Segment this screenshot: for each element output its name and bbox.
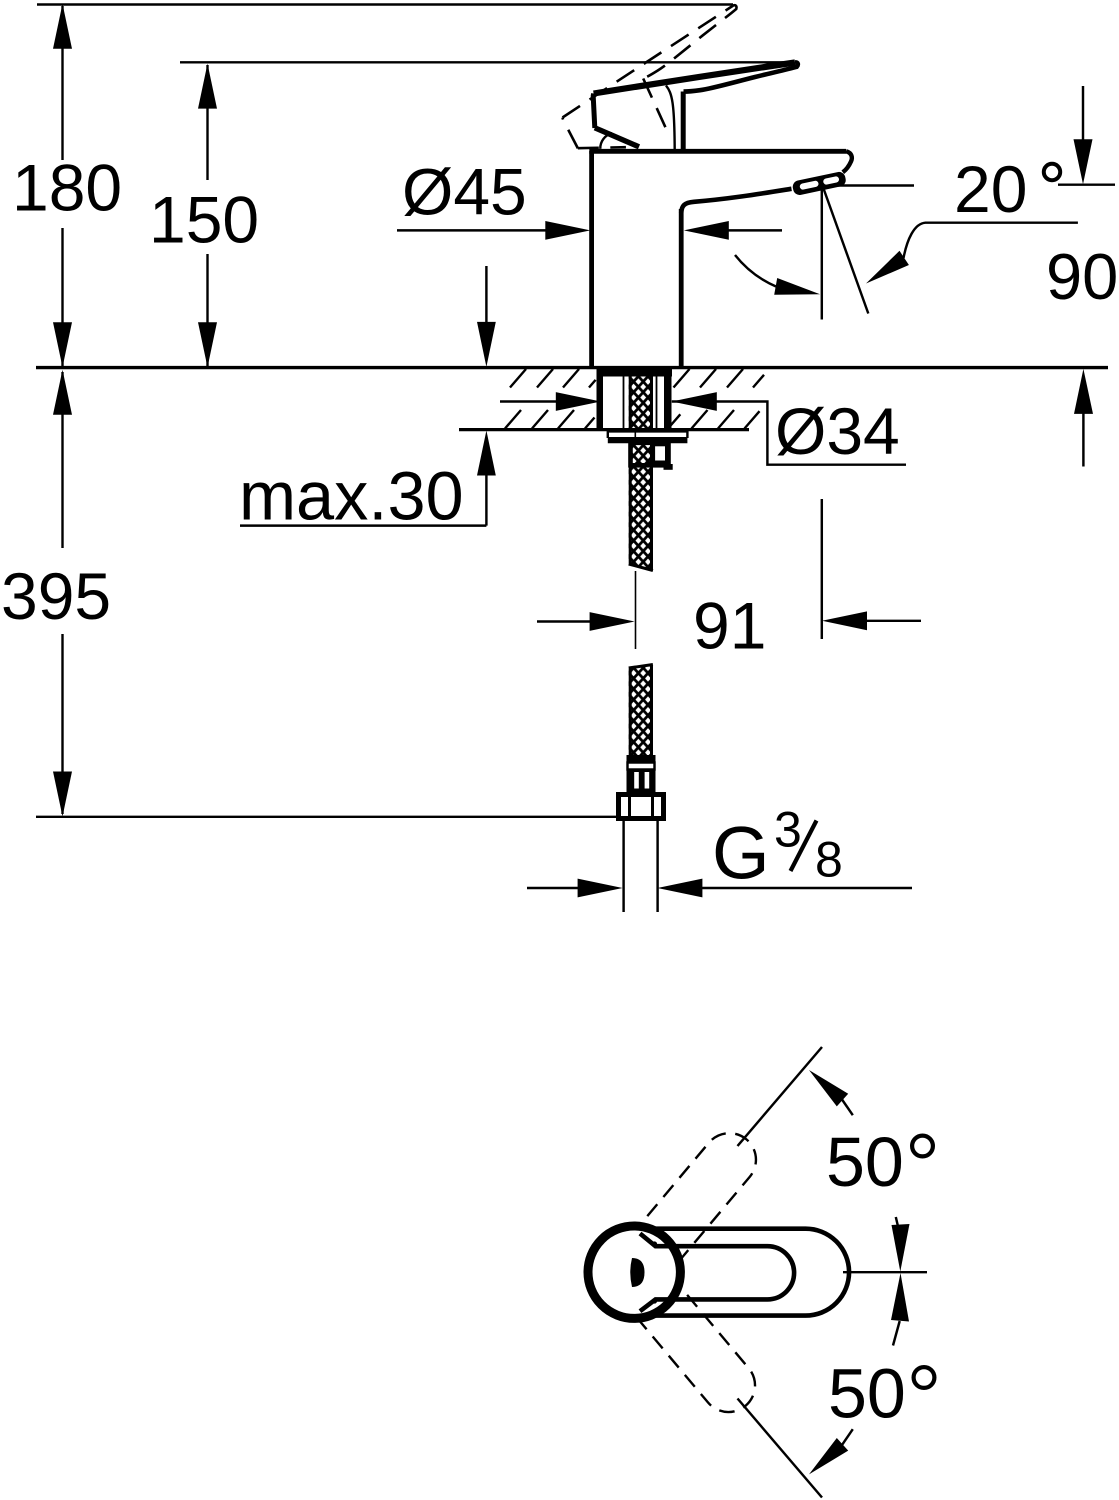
aerator: [792, 171, 847, 196]
top view handle cap circle: [588, 1226, 680, 1318]
arrow 150 down: [198, 322, 217, 367]
dim Ø45 right arrow: [726, 229, 782, 231]
dimension 150 vertical line: [206, 65, 208, 366]
svg-text:50: 50: [828, 1355, 906, 1433]
spout angle vertical ref line: [821, 188, 823, 320]
handle pivot arc: [600, 133, 612, 149]
50 deg upper leader arrow: [841, 1098, 853, 1115]
hose ferrule with slots: [627, 770, 656, 796]
dim G3/8 left arrow: [527, 887, 580, 889]
lever handle solid: [593, 62, 798, 151]
svg-text:3: 3: [774, 802, 802, 858]
deck hatching right lower: [668, 410, 760, 429]
dimension 395 vertical line: [61, 372, 63, 814]
supply pipe: [624, 819, 658, 913]
nut step: [664, 464, 673, 470]
dim max.30 upper arrow: [485, 266, 487, 324]
washer centerline: [634, 430, 636, 444]
countertop deck line: [36, 366, 1108, 369]
faucet body left edge: [589, 151, 594, 366]
svg-text:Ø45: Ø45: [402, 155, 527, 229]
svg-text:50: 50: [826, 1123, 904, 1201]
top view axis line: [843, 1271, 927, 1273]
mounting hole right edge: [664, 368, 672, 430]
top view dashed handle rotated down 50: [608, 1252, 776, 1431]
deck hatching left upper: [510, 369, 596, 388]
top view outlet mark: [630, 1258, 644, 1287]
91 right extension line: [821, 499, 823, 639]
spout tip right edge: [843, 151, 852, 172]
connector nut G3/8: [619, 795, 664, 819]
svg-text:90: 90: [1046, 240, 1118, 313]
shank top dark band: [600, 368, 673, 377]
spout underside: [681, 189, 791, 213]
arrow 395 up: [53, 370, 72, 415]
50 deg lower slant line: [738, 1399, 823, 1498]
deck hatching left lower: [505, 410, 595, 429]
spout angle arc arrow: [735, 255, 776, 287]
flexible hose braid lower: [629, 665, 653, 757]
svg-text:91: 91: [693, 589, 766, 663]
arrow 395 down: [53, 772, 72, 817]
dim G3/8 right arrow: [700, 887, 912, 889]
svg-text:G: G: [712, 812, 770, 895]
arrow 180 down: [53, 322, 72, 367]
svg-text:150: 150: [149, 183, 259, 257]
svg-text:8: 8: [815, 832, 843, 888]
arrow 150 up: [198, 64, 217, 109]
top view outer capsule: [591, 1229, 850, 1316]
dim 90 bottom arrow: [1074, 369, 1093, 414]
mounting nut: [631, 443, 669, 466]
hose collar: [627, 755, 656, 763]
svg-text:20: 20: [954, 152, 1027, 226]
faucet body top edge: [589, 149, 846, 154]
threaded shank braid middle: [629, 443, 653, 571]
svg-text:395: 395: [1, 559, 111, 633]
angle zero arrows pair: [896, 1217, 898, 1226]
extension line 150 reference: [180, 61, 788, 63]
deck underside line: [459, 428, 749, 431]
hose white band: [628, 763, 655, 770]
dim 91 left arrow: [537, 620, 592, 622]
hose lines in hole: [624, 376, 657, 430]
spout angle ref horizontal line: [824, 183, 1115, 186]
faucet body inner (front) edge: [679, 209, 684, 366]
connector nut facets: [630, 795, 653, 818]
dim max.30 lower arrow: [477, 431, 496, 476]
dim 90 top arrow: [1082, 86, 1084, 141]
dim 91 right arrow: [865, 620, 921, 622]
20 deg leader line + arrow: [904, 223, 1078, 258]
extension line top (180 reference): [37, 3, 733, 5]
dimension 180 vertical line: [61, 6, 63, 366]
mounting hole left edge: [597, 368, 604, 430]
label G 3/8: [712, 802, 843, 895]
arrow 180 up: [53, 4, 72, 49]
svg-text:max.30: max.30: [239, 458, 464, 535]
threaded shank braid upper: [629, 368, 653, 430]
50 deg lower leader arrow: [841, 1429, 853, 1446]
washer plate: [608, 431, 688, 438]
dim Ø34 left arrow: [500, 400, 558, 402]
svg-text:Ø34: Ø34: [775, 394, 900, 468]
deck hatching right upper: [674, 369, 765, 388]
spout angle slanted line: [824, 189, 869, 314]
nut slot: [654, 445, 667, 462]
dim Ø45 left arrow: [397, 229, 548, 231]
dim Ø34 right arrow + leader: [672, 392, 717, 411]
svg-text:180: 180: [12, 151, 122, 225]
hose centerline break: [635, 571, 637, 649]
50 deg upper slant line: [738, 1047, 823, 1146]
bottom reference line: [36, 816, 618, 818]
lever handle raised (dashed): [549, 5, 772, 170]
top view handle inner outline: [640, 1234, 794, 1312]
top view junction dots: [652, 1241, 657, 1246]
washer black band: [608, 437, 688, 443]
top view dashed handle rotated up 50: [608, 1114, 776, 1293]
